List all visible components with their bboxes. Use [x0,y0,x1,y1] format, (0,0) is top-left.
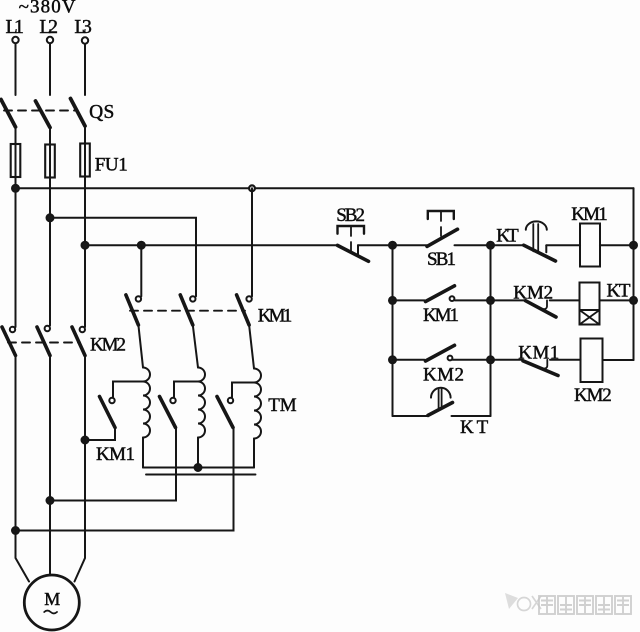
motor tilde [44,611,57,614]
contact KM2 NC blade [526,301,557,317]
wire TM winding1 tap [113,382,143,398]
coil KT delay box X [580,310,600,325]
watermark logo blobs [505,593,541,611]
wire phase L3 from fuse to KM2 contact [84,177,86,328]
contact KM2 aux NO blade [426,345,455,361]
wire mid rail to KM1 NC [491,359,523,361]
svg-text:KM1: KM1 [423,305,459,326]
wire QS to FU1 pole1 [15,127,17,144]
terminal L2 [47,37,53,43]
junction dot phase L3 / feeder 3 [82,242,89,249]
wire feeder line 3 / control rung 1 left (phase L3 tap, y245) [85,244,338,246]
svg-text:TM: TM [268,395,296,416]
contact KM1 NC fixed bar [544,360,547,369]
wire KT delayed contact right to mid rail [452,415,491,417]
svg-text:KT: KT [607,281,631,302]
contactor KM1 upper pole3 blade [237,295,250,325]
contactor KM2 pole2 blade [37,327,50,356]
wire drop feeder1 to KM1 upper pole3 [251,188,253,296]
junction dot phase L2 / feeder 2 [47,214,54,221]
junction dot left rail top [389,242,396,249]
wire mid junction to KT contact [491,244,524,246]
coil KT delay box [580,310,600,325]
wire rung3 left [393,359,425,361]
junction dot left rail rung2 [389,297,396,304]
contactor KM1 lower pole1 blade [100,397,116,428]
relay KT delayed NC contact blade [524,245,556,261]
junction dot left rail rung3 [389,356,396,363]
wire KM1 lower pole1 to phase L3 [85,428,115,441]
wire phase L1 from fuse to KM2 contact [15,177,17,327]
svg-text:KM2: KM2 [90,335,126,356]
wire TM winding2 tap [174,382,198,398]
wire KM1 aux to mid rail [455,299,491,301]
motor M circle [24,575,79,630]
junction dot mid rail top [487,242,494,249]
wire TM star bus second line [146,474,256,476]
contactor KM2 pole1 terminal [10,327,15,332]
relay KT delayed NC contact arc [526,221,547,229]
contactor KM1 upper pole1 terminal [136,296,141,301]
button SB1 left wire [393,244,428,246]
fuse FU1 pole1 [11,144,21,177]
terminal L1 [12,37,18,43]
wire phase L2 from fuse to KM2 contact [49,178,51,326]
contactor KM1 upper pole2 terminal [190,296,195,301]
wire L3 drop to QS [84,44,86,95]
contactor KM1 lower pole1 terminal [109,398,114,403]
relay KT delayed NC fixed bar [545,245,547,252]
wire control left rail [392,245,394,416]
junction dot pole1 output on phase L3 [82,437,89,444]
svg-text:KM1: KM1 [258,306,293,327]
transformer TM winding 1 [143,368,150,438]
contactor KM1 lower pole3 blade [217,397,233,428]
wire KT coil to right rail [600,299,634,301]
wire rung2 left [393,299,425,301]
svg-text:KM1: KM1 [96,444,135,465]
wire feeder line 2 (phase L2 tap, y218) [50,218,196,296]
junction dot star bus [195,464,202,471]
button SB2 actuator stem dashed [350,227,352,251]
junction dot mid rail rung2 [487,297,494,304]
wire KM2 aux to mid rail [452,359,490,361]
contactor KM1 lower pole2 blade [160,397,176,428]
svg-text:L1: L1 [6,16,25,38]
wire KM1 lower pole3 to phase L1 [16,428,234,531]
wire phase L1 KM2 to motor [16,356,30,582]
contactor KM1 lower pole2 terminal [170,398,175,403]
transformer TM winding 2 [198,368,205,438]
svg-text:KM1: KM1 [571,204,608,225]
wire KM1 lower pole2 to phase L2 [50,428,176,501]
wire KM1 NC to KM2 coil [550,359,581,361]
wire QS to FU1 pole3 [84,126,86,144]
wire L2 drop to QS [49,43,51,95]
contactor KM2 pole3 blade [72,327,85,356]
wire L1 drop to QS [15,43,17,95]
button SB1 actuator stem dashed [440,212,442,240]
contact KM1 aux NO blade [426,286,455,302]
transformer TM winding 3 [254,369,261,439]
fuse FU1 pole1 through-wire [15,144,17,177]
button SB1 actuator bracket [428,211,454,219]
svg-text:QS: QS [89,102,114,123]
wire phase L3 KM2 to motor [75,356,86,582]
contact KM2 NC fixed bar [544,300,547,309]
wire TM winding3 bottom [253,439,255,468]
button SB2 actuator bracket [338,226,365,234]
wire control right rail [633,188,635,360]
wire left rail bottom to KT delayed contact [393,415,429,417]
wire phase L2 KM2 to motor [49,356,51,576]
wire SB1 to mid junction [455,244,491,246]
wire drop feeder3 to KM1 upper pole1 [140,245,142,296]
contactor KM2 pole2 terminal [45,326,50,331]
wire KM1 pole1 to TM coil1 [138,325,143,368]
button SB2 fixed bar [357,245,359,254]
svg-text:FU1: FU1 [95,155,128,176]
terminal L3 [82,37,88,43]
junction dot right rail rung1 [630,242,637,249]
svg-text:M: M [44,589,60,609]
watermark text placeholder [539,596,631,614]
junction dot feeder3 to KM1 pole1 [138,242,145,249]
relay KT delayed NO blade [428,403,453,416]
contactor KM1 upper pole3 terminal [246,296,251,301]
fuse FU1 pole2 [45,145,55,178]
wire KT contact to KM1 coil [546,244,580,246]
wire KM1 coil to right rail [600,244,634,246]
wire KM1 pole3 to TM coil3 [249,325,254,369]
svg-text:KT: KT [496,226,519,247]
coil KM2 [581,339,603,383]
wire QS to FU1 pole2 [49,128,51,145]
contact KM2 aux NO hook [448,356,453,361]
contactor KM1 lower pole3 terminal [228,398,233,403]
fuse FU1 pole3 through-wire [84,144,86,177]
svg-text:SB2: SB2 [336,205,365,226]
fuse FU1 pole3 [80,144,90,177]
contact KM1 aux NO hook [450,296,455,301]
svg-text:KM2: KM2 [574,385,612,406]
coil KT body [580,283,600,311]
switch QS linkage dashed [4,110,77,112]
wire KM2 coil to right rail [603,359,634,361]
junction ring at feeder1 / KM1 branch [249,185,255,191]
button SB2 blade (NC) [338,245,369,261]
wire KM1 pole2 to TM coil2 [193,325,198,368]
coil KM1 [580,224,600,267]
switch QS pole 2 blade [36,101,51,128]
wire TM winding2 bottom [197,438,199,468]
junction dot mid rail rung3 [487,356,494,363]
button SB1 blade (NO) [427,229,458,246]
relay KT delayed NC contact stems [533,224,538,251]
relay KT delayed NO arc [431,388,451,398]
svg-text:L2: L2 [39,16,58,38]
contact KM1 NC blade [523,361,558,376]
svg-text:KM2: KM2 [423,365,464,386]
junction dot pole2 output on phase L2 [47,497,54,504]
wire KM2 NC to KT coil [550,299,580,301]
wire TM winding3 tap [232,383,254,398]
wire TM star bus [143,467,254,469]
svg-text:L3: L3 [74,16,92,38]
contactor KM1 upper pole2 blade [180,295,193,325]
junction dot right rail rung2 [630,297,637,304]
wire SB2 to left rail [358,244,393,246]
contactor KM1 upper pole1 blade [126,295,138,325]
wire feeder line 1 (phase L1 tap, y188) [16,187,634,189]
switch QS pole 1 blade [1,100,16,128]
switch QS pole 3 blade [71,99,86,127]
relay KT delayed NO stems [439,389,442,409]
contactor KM2 linkage dashed [8,342,80,344]
junction dot phase L1 / feeder 1 [12,185,19,192]
fuse FU1 pole2 through-wire [49,145,51,178]
svg-text:SB1: SB1 [427,249,456,270]
contactor KM1 upper linkage dashed [130,310,245,312]
contactor KM2 pole3 terminal [80,327,85,332]
junction dot pole3 output on phase L1 [12,527,19,534]
wire TM winding1 bottom [142,438,144,468]
wire control mid rail [490,245,492,416]
wire mid rail to KM2 NC [491,299,526,301]
contactor KM2 pole1 blade [2,327,16,356]
